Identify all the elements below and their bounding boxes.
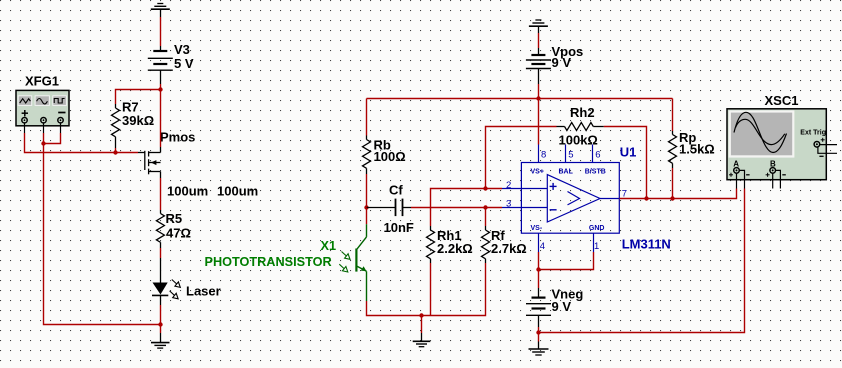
resistor Rb — [363, 136, 371, 175]
junction Rh2 feedback / pin2 node — [483, 186, 487, 190]
wire Pmos source to R5 — [160, 178, 162, 210]
wire bottom rail X1 to Rf — [367, 263, 486, 316]
svg-text:Rh2: Rh2 — [570, 105, 595, 120]
wire Rh1 bottom to rail — [430, 263, 432, 316]
wire junction to ground — [160, 325, 162, 334]
wire output to scope — [620, 189, 737, 199]
wire rail to pin8 — [538, 99, 540, 145]
svg-text:3: 3 — [506, 198, 511, 209]
wire Cf to op-amp pin3 — [411, 207, 502, 209]
wire V3 bottom to junction — [160, 84, 162, 90]
svg-text:2.2kΩ: 2.2kΩ — [437, 241, 473, 256]
transistor Pmos — [145, 147, 161, 178]
ground (top of Vpos) — [529, 20, 548, 33]
svg-text:XFG1: XFG1 — [25, 73, 59, 88]
svg-text:6: 6 — [595, 149, 600, 160]
wire Vneg to ground junction — [538, 327, 540, 333]
wire Rb bottom to Cf node — [366, 174, 368, 208]
svg-text:10nF: 10nF — [384, 220, 414, 235]
svg-text:GND: GND — [589, 225, 605, 232]
svg-text:U1: U1 — [620, 145, 637, 160]
svg-text:2: 2 — [506, 180, 511, 191]
svg-text:39kΩ: 39kΩ — [122, 113, 154, 128]
wire XFG1 plus to Pmos gate — [25, 133, 139, 153]
svg-text:9 V: 9 V — [552, 55, 572, 70]
wire Rh2 right to output node — [604, 127, 647, 199]
wire drain from V3 junction — [160, 90, 162, 148]
junction Rb/Cf/X1 node — [364, 205, 368, 209]
wire Vpos to rail junction — [538, 84, 540, 99]
svg-text:XSC1: XSC1 — [765, 93, 799, 108]
svg-text:B/STB: B/STB — [585, 169, 606, 176]
svg-text:Cf: Cf — [389, 183, 403, 198]
junction V3/R7/Pmos node — [158, 87, 162, 91]
svg-text:2.7kΩ: 2.7kΩ — [491, 241, 527, 256]
svg-text:5: 5 — [568, 149, 573, 160]
junction Vneg top node — [536, 267, 540, 271]
resistor Rf — [482, 226, 490, 263]
svg-text:Laser: Laser — [186, 284, 221, 299]
junction Rp output node — [670, 196, 674, 200]
wire ground to Vpos — [538, 33, 540, 48]
junction Vpos rail node — [536, 96, 540, 100]
svg-text:V3: V3 — [174, 42, 190, 57]
wire Rp bottom to output node — [672, 168, 674, 199]
wire junction to mid ground — [421, 316, 423, 334]
op-amp U1 — [502, 145, 620, 253]
instrument XSC1 — [727, 93, 837, 189]
resistor Rh2 — [557, 123, 604, 131]
resistor R5 — [156, 210, 164, 248]
svg-text:LM311N: LM311N — [622, 236, 671, 251]
wire Rh2 left to pin2 node — [486, 127, 557, 189]
resistor R7 — [112, 104, 120, 148]
wire junction to Vneg — [538, 270, 540, 289]
wire R7 bottom to junction — [115, 148, 117, 153]
svg-text:Pmos: Pmos — [160, 130, 195, 145]
svg-text:100Ω: 100Ω — [374, 149, 406, 164]
wire XFG1 common down to laser cathode rail — [44, 133, 161, 325]
junction Rh2 output node — [644, 196, 648, 200]
svg-text:R5: R5 — [166, 211, 183, 226]
battery Vpos — [526, 48, 551, 84]
battery Vneg — [526, 288, 551, 327]
phototransistor X1 — [366, 208, 368, 225]
svg-text:100um: 100um — [217, 184, 258, 199]
svg-text:47Ω: 47Ω — [166, 226, 191, 241]
instrument XFG1 — [16, 73, 69, 133]
wire Rf top to pin3 node — [485, 208, 487, 227]
resistor Rp — [669, 131, 677, 168]
junction R7/gate node — [113, 150, 117, 154]
battery V3 — [148, 46, 173, 84]
svg-text:100um: 100um — [167, 184, 208, 199]
svg-text:X1: X1 — [321, 239, 337, 253]
svg-text:VS-: VS- — [531, 225, 543, 232]
junction Rf top / pin3 node — [483, 205, 487, 209]
ground (laser) — [151, 333, 170, 348]
wire junction to ground — [538, 333, 540, 342]
svg-text:5 V: 5 V — [174, 56, 194, 71]
wire rail down to Rb — [366, 99, 368, 136]
junction laser ground node — [158, 322, 162, 326]
wire junction to R7 top — [116, 90, 161, 105]
junction Vneg ground node — [536, 330, 540, 334]
wire pin4 down — [538, 252, 540, 270]
wire top rail Rb to Rp — [367, 98, 673, 100]
LED Laser — [153, 283, 168, 295]
svg-text:BAL: BAL — [559, 169, 574, 176]
svg-text:PHOTOTRANSISTOR: PHOTOTRANSISTOR — [205, 255, 332, 269]
svg-text:1: 1 — [594, 241, 599, 252]
wire Laser cathode down — [160, 295, 162, 305]
wire R5 to Laser — [160, 248, 162, 258]
wire XFG1 minus terminal to common — [44, 133, 61, 144]
wire ground to V3 — [160, 17, 162, 46]
capacitor Cf — [367, 199, 412, 217]
ground (Vneg) — [529, 342, 549, 356]
wire pin2 to Rh1 — [431, 189, 503, 227]
wire pin1 down to Vneg node — [539, 252, 594, 270]
junction XFG1 common node — [41, 141, 45, 145]
wire rail to Rp — [672, 99, 674, 132]
svg-text:4: 4 — [540, 241, 545, 252]
svg-text:VS+: VS+ — [531, 169, 544, 176]
svg-text:Ext Trig: Ext Trig — [800, 130, 826, 137]
wire ground rail to scope A minus — [539, 189, 745, 333]
svg-text:9 V: 9 V — [552, 299, 572, 314]
resistor Rh1 — [427, 226, 435, 263]
svg-text:8: 8 — [541, 149, 546, 160]
junction mid ground node — [419, 313, 423, 317]
ground (top of V3) — [151, 4, 170, 18]
ground (middle) — [413, 333, 431, 347]
svg-text:1.5kΩ: 1.5kΩ — [679, 142, 715, 157]
